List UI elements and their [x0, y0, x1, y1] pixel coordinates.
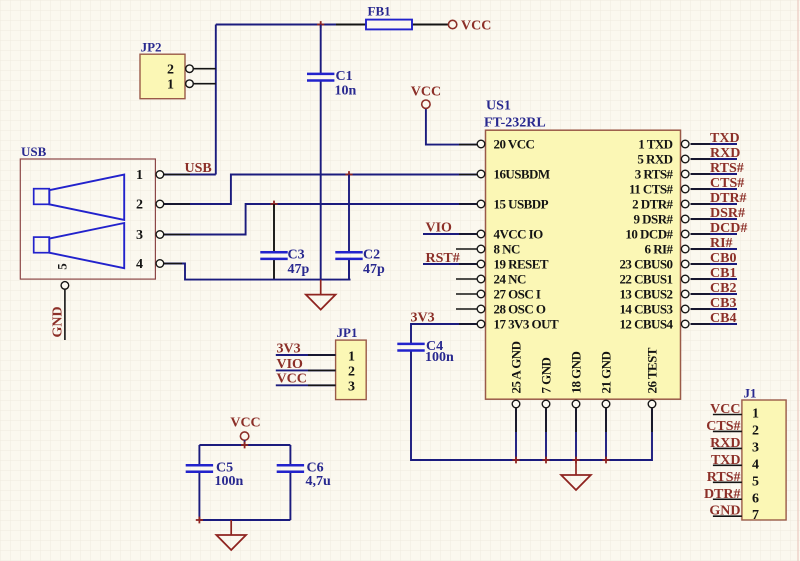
- wire C3 leads: [273, 204, 275, 280]
- U1 left pin 16USBDM: [477, 167, 550, 182]
- svg-text:2: 2: [167, 63, 174, 78]
- svg-text:1: 1: [136, 168, 143, 183]
- svg-text:4,7u: 4,7u: [306, 474, 332, 489]
- svg-text:3: 3: [348, 380, 355, 395]
- J1 pin 3 wire: [713, 440, 759, 455]
- svg-text:13 CBUS2: 13 CBUS2: [619, 287, 672, 302]
- svg-text:2: 2: [348, 365, 355, 380]
- junction at C3 top: [270, 201, 277, 208]
- svg-text:14 CBUS3: 14 CBUS3: [619, 302, 673, 317]
- svg-text:3V3: 3V3: [411, 311, 435, 326]
- U1 left pin 17 3V3 OUT: [477, 317, 559, 332]
- svg-text:FB1: FB1: [368, 4, 391, 19]
- svg-text:6 RI#: 6 RI#: [645, 242, 674, 257]
- U1 bottom pin 25 A GND: [509, 341, 524, 407]
- wire net CB3: [691, 308, 738, 310]
- connector J1: [742, 386, 786, 521]
- net label 3V3 (JP1): [277, 341, 301, 356]
- U1 left pin 4VCC IO: [477, 227, 543, 242]
- wire VIO stub: [423, 233, 477, 235]
- U1 left pin 15 USBDP: [477, 197, 548, 212]
- svg-text:19 RESET: 19 RESET: [494, 257, 549, 272]
- svg-text:RST#: RST#: [426, 251, 460, 266]
- pin 8 NC stub: [456, 248, 477, 250]
- junction bus pin25: [512, 457, 519, 464]
- junction bus pin7: [542, 457, 549, 464]
- net label RTS# (J1): [707, 470, 741, 485]
- svg-text:DCD#: DCD#: [710, 221, 747, 236]
- net label CTS#: [710, 176, 744, 191]
- wire C2 leads: [348, 175, 350, 280]
- svg-text:DTR#: DTR#: [710, 191, 747, 206]
- J1 pin 2 wire: [713, 423, 759, 438]
- net label RXD (J1): [710, 436, 740, 451]
- svg-text:2 DTR#: 2 DTR#: [632, 197, 673, 212]
- svg-text:C3: C3: [288, 248, 305, 263]
- net label USB: [185, 161, 212, 176]
- ferrite bead FB1: [366, 4, 412, 30]
- svg-text:10 DCD#: 10 DCD#: [625, 227, 673, 242]
- svg-text:7: 7: [752, 508, 759, 523]
- net label TXD (J1): [711, 453, 741, 468]
- svg-text:16USBDM: 16USBDM: [494, 167, 550, 182]
- U1 right pin 23 CBUS0: [619, 257, 689, 272]
- net label DTR# (J1): [704, 487, 741, 502]
- svg-text:5: 5: [752, 474, 759, 489]
- svg-text:CB2: CB2: [710, 281, 736, 296]
- svg-text:26 TEST: 26 TEST: [645, 347, 660, 393]
- svg-text:4VCC IO: 4VCC IO: [494, 227, 544, 242]
- svg-text:RXD: RXD: [710, 146, 740, 161]
- svg-text:VCC: VCC: [461, 19, 491, 34]
- svg-text:5: 5: [55, 263, 70, 270]
- svg-text:47p: 47p: [363, 262, 385, 277]
- wire net DTR#: [691, 203, 738, 205]
- svg-text:11 CTS#: 11 CTS#: [629, 182, 674, 197]
- capacitor C5: [186, 461, 244, 490]
- wire FB1 to VCC port: [412, 24, 449, 26]
- net label TXD: [710, 131, 740, 146]
- svg-text:100n: 100n: [215, 474, 244, 489]
- wire net CB2: [691, 293, 738, 295]
- JP1 pin 2 wire: [276, 365, 355, 380]
- svg-text:JP1: JP1: [337, 325, 358, 340]
- svg-text:CTS#: CTS#: [706, 419, 740, 434]
- USB shape lower contact: [34, 223, 125, 268]
- svg-text:3V3: 3V3: [277, 341, 301, 356]
- svg-text:10n: 10n: [335, 84, 357, 99]
- junction C5 bottom: [196, 517, 203, 524]
- pin 28 OSC O stub: [456, 308, 477, 310]
- svg-text:22 CBUS1: 22 CBUS1: [619, 272, 672, 287]
- capacitor C2: [335, 248, 385, 278]
- svg-text:C1: C1: [336, 69, 353, 84]
- svg-text:15 USBDP: 15 USBDP: [494, 197, 549, 212]
- svg-text:VCC: VCC: [277, 372, 307, 387]
- svg-text:VIO: VIO: [426, 221, 453, 236]
- wire net CTS#: [691, 188, 738, 190]
- power port VCC (top): [448, 19, 491, 34]
- svg-text:4: 4: [752, 457, 759, 472]
- svg-text:5 RXD: 5 RXD: [637, 152, 672, 167]
- svg-text:25 A GND: 25 A GND: [509, 341, 524, 393]
- net label RST#: [426, 251, 460, 266]
- svg-text:18 GND: 18 GND: [569, 351, 584, 393]
- U1 right pin 13 CBUS2: [619, 287, 689, 302]
- wire VBUS: USB pin1 to JP2 riser to FB1: [164, 25, 366, 175]
- svg-text:CB4: CB4: [710, 311, 736, 326]
- svg-text:2: 2: [136, 198, 143, 213]
- USB pin 5: [55, 263, 70, 340]
- net label VIO (JP1): [277, 357, 304, 372]
- ground (U1 GND pins): [561, 460, 591, 490]
- U1 left pin 8 NC: [477, 242, 520, 257]
- sheet border line: [797, 0, 799, 561]
- svg-text:1 TXD: 1 TXD: [638, 137, 672, 152]
- svg-text:12 CBUS4: 12 CBUS4: [619, 317, 673, 332]
- U1 right pin 11 CTS#: [629, 182, 689, 197]
- wire VCC to U1 pin20: [426, 109, 477, 145]
- U1 bottom pin 26 TEST: [645, 347, 660, 408]
- U1 left pin 24 NC: [477, 272, 526, 287]
- svg-text:17 3V3 OUT: 17 3V3 OUT: [494, 317, 559, 332]
- wire USBDM: USB pin2 riser to U1 pin16: [164, 175, 477, 205]
- wire RST# stub: [423, 263, 477, 265]
- power port VCC (C5/C6): [230, 416, 260, 441]
- U1 right pin 9 DSR#: [634, 212, 689, 227]
- wire USB ground: pin4 to C2 bottom: [164, 259, 351, 280]
- net label CTS# (J1): [706, 419, 740, 434]
- U1 left pin 20 VCC: [477, 137, 534, 152]
- JP2 pin 2: [167, 63, 216, 78]
- wire net CB1: [691, 278, 738, 280]
- svg-text:CB1: CB1: [710, 266, 736, 281]
- net label GND (J1): [709, 504, 740, 519]
- wire net DCD#: [691, 233, 738, 235]
- net label DSR#: [710, 206, 745, 221]
- svg-text:6: 6: [752, 491, 759, 506]
- net label RXD: [710, 146, 740, 161]
- net label CB4: [710, 311, 736, 326]
- net label VIO: [426, 221, 453, 236]
- junction bus pin21: [602, 457, 609, 464]
- wire net CB0: [691, 263, 738, 265]
- svg-text:3 RTS#: 3 RTS#: [635, 167, 674, 182]
- svg-text:3: 3: [136, 228, 143, 243]
- svg-text:USB: USB: [21, 144, 47, 159]
- J1 pin 4 wire: [713, 457, 759, 472]
- wire net RI#: [691, 248, 738, 250]
- svg-text:VCC: VCC: [411, 85, 441, 100]
- net label RTS#: [710, 161, 744, 176]
- J1 pin 6 wire: [713, 491, 759, 506]
- connector JP2: [140, 40, 185, 99]
- USB shape upper contact: [34, 175, 125, 220]
- svg-text:RTS#: RTS#: [707, 470, 741, 485]
- svg-text:100n: 100n: [425, 350, 454, 365]
- U1 left pin 27 OSC I: [477, 287, 541, 302]
- svg-text:27 OSC I: 27 OSC I: [494, 287, 541, 302]
- svg-text:4: 4: [136, 257, 143, 272]
- junction VCC stem: [241, 442, 248, 449]
- U1 right pin 14 CBUS3: [619, 302, 689, 317]
- JP2 pin 1: [167, 78, 216, 93]
- J1 pin 7 wire: [713, 508, 759, 523]
- capacitor C6: [277, 461, 331, 490]
- power port VCC (U1): [411, 85, 441, 109]
- svg-text:FT-232RL: FT-232RL: [484, 116, 546, 131]
- net label CB0: [710, 251, 736, 266]
- svg-text:RXD: RXD: [710, 436, 740, 451]
- net label RI#: [710, 236, 733, 251]
- JP1 pin 3 wire: [276, 380, 355, 395]
- junction bus pin18: [572, 457, 579, 464]
- svg-text:24 NC: 24 NC: [494, 272, 526, 287]
- wire 3V3: U1 pin17 through C4 to ground bus: [411, 324, 652, 460]
- svg-text:RTS#: RTS#: [710, 161, 744, 176]
- svg-text:8 NC: 8 NC: [494, 242, 520, 257]
- svg-text:GND: GND: [709, 504, 740, 519]
- USB pin 3: [136, 228, 164, 243]
- U1 bottom pin 21 GND: [599, 351, 614, 407]
- USB pin 1: [136, 168, 164, 183]
- svg-text:23 CBUS0: 23 CBUS0: [619, 257, 672, 272]
- svg-text:GND: GND: [51, 306, 66, 337]
- svg-text:CB3: CB3: [710, 296, 736, 311]
- svg-text:JP2: JP2: [141, 40, 162, 55]
- svg-text:VCC: VCC: [710, 402, 740, 417]
- U1 bottom pin 18 GND: [569, 351, 584, 407]
- U1 left pin 28 OSC O: [477, 302, 546, 317]
- svg-text:1: 1: [752, 407, 759, 422]
- U1 right pin 5 RXD: [637, 152, 689, 167]
- wire net CB4: [691, 323, 738, 325]
- U1 right pin 2 DTR#: [632, 197, 689, 212]
- svg-text:DTR#: DTR#: [704, 487, 741, 502]
- svg-text:DSR#: DSR#: [710, 206, 745, 221]
- wire net DSR#: [691, 218, 738, 220]
- net label CB3: [710, 296, 736, 311]
- svg-text:J1: J1: [744, 386, 757, 401]
- wire VCC to C5/C6: [199, 440, 290, 520]
- svg-text:28 OSC O: 28 OSC O: [494, 302, 546, 317]
- ground (C5/C6): [216, 520, 246, 550]
- pin 24 NC stub: [456, 278, 477, 280]
- svg-text:20 VCC: 20 VCC: [494, 137, 535, 152]
- svg-text:US1: US1: [486, 99, 511, 114]
- pin 27 OSC I stub: [456, 293, 477, 295]
- svg-text:1: 1: [167, 78, 174, 93]
- U1 right pin 12 CBUS4: [619, 317, 689, 332]
- wire C1 leads: [320, 25, 322, 280]
- net label VCC (JP1): [277, 372, 307, 387]
- connector JP1: [336, 325, 367, 400]
- net label DTR#: [710, 191, 747, 206]
- U1 right pin 6 RI#: [645, 242, 689, 257]
- svg-text:9 DSR#: 9 DSR#: [634, 212, 674, 227]
- svg-text:USB: USB: [185, 161, 212, 176]
- svg-text:RI#: RI#: [710, 236, 733, 251]
- net label CB1: [710, 266, 736, 281]
- wire net RTS#: [691, 173, 738, 175]
- JP1 pin 1 wire: [276, 349, 355, 364]
- net label 3V3 (C4): [411, 311, 435, 326]
- U1 right pin 1 TXD: [638, 137, 689, 152]
- junction at C1 top: [317, 21, 324, 28]
- wire USBDP: USB pin3 riser to U1 pin15: [164, 204, 477, 235]
- capacitor C1: [307, 69, 357, 99]
- U1 right pin 10 DCD#: [625, 227, 689, 242]
- svg-text:CB0: CB0: [710, 251, 736, 266]
- capacitor C4: [397, 339, 454, 365]
- svg-text:21 GND: 21 GND: [599, 351, 614, 393]
- wire net TXD: [691, 143, 738, 145]
- net label VCC (J1): [710, 402, 740, 417]
- wire U1 ground pins to bus: [516, 408, 606, 460]
- svg-text:CTS#: CTS#: [710, 176, 744, 191]
- svg-text:7 GND: 7 GND: [539, 357, 554, 393]
- svg-text:2: 2: [752, 423, 759, 438]
- capacitor C3: [260, 248, 309, 278]
- ground (USB / C1 / C2 / C3): [306, 280, 336, 310]
- svg-text:VIO: VIO: [277, 357, 304, 372]
- svg-text:47p: 47p: [288, 262, 310, 277]
- U1 left pin 19 RESET: [477, 257, 549, 272]
- connector USB: [20, 144, 155, 279]
- net label DCD#: [710, 221, 747, 236]
- USB pin 4: [136, 257, 164, 272]
- wire net RXD: [691, 158, 738, 160]
- svg-text:C2: C2: [363, 248, 380, 263]
- junction at C2 top: [345, 171, 352, 178]
- net label CB2: [710, 281, 736, 296]
- U1 bottom pin 7 GND: [539, 357, 554, 407]
- USB pin 2: [136, 198, 164, 213]
- svg-text:TXD: TXD: [711, 453, 741, 468]
- net label GND (USB shield): [51, 306, 66, 337]
- U1 right pin 22 CBUS1: [619, 272, 689, 287]
- J1 pin 1 wire: [713, 407, 759, 422]
- svg-text:3: 3: [752, 440, 759, 455]
- svg-text:1: 1: [348, 349, 355, 364]
- svg-text:TXD: TXD: [710, 131, 740, 146]
- IC U1 FT-232RL body: [484, 99, 681, 400]
- U1 right pin 3 RTS#: [635, 167, 689, 182]
- svg-text:VCC: VCC: [230, 416, 260, 431]
- J1 pin 5 wire: [713, 474, 759, 489]
